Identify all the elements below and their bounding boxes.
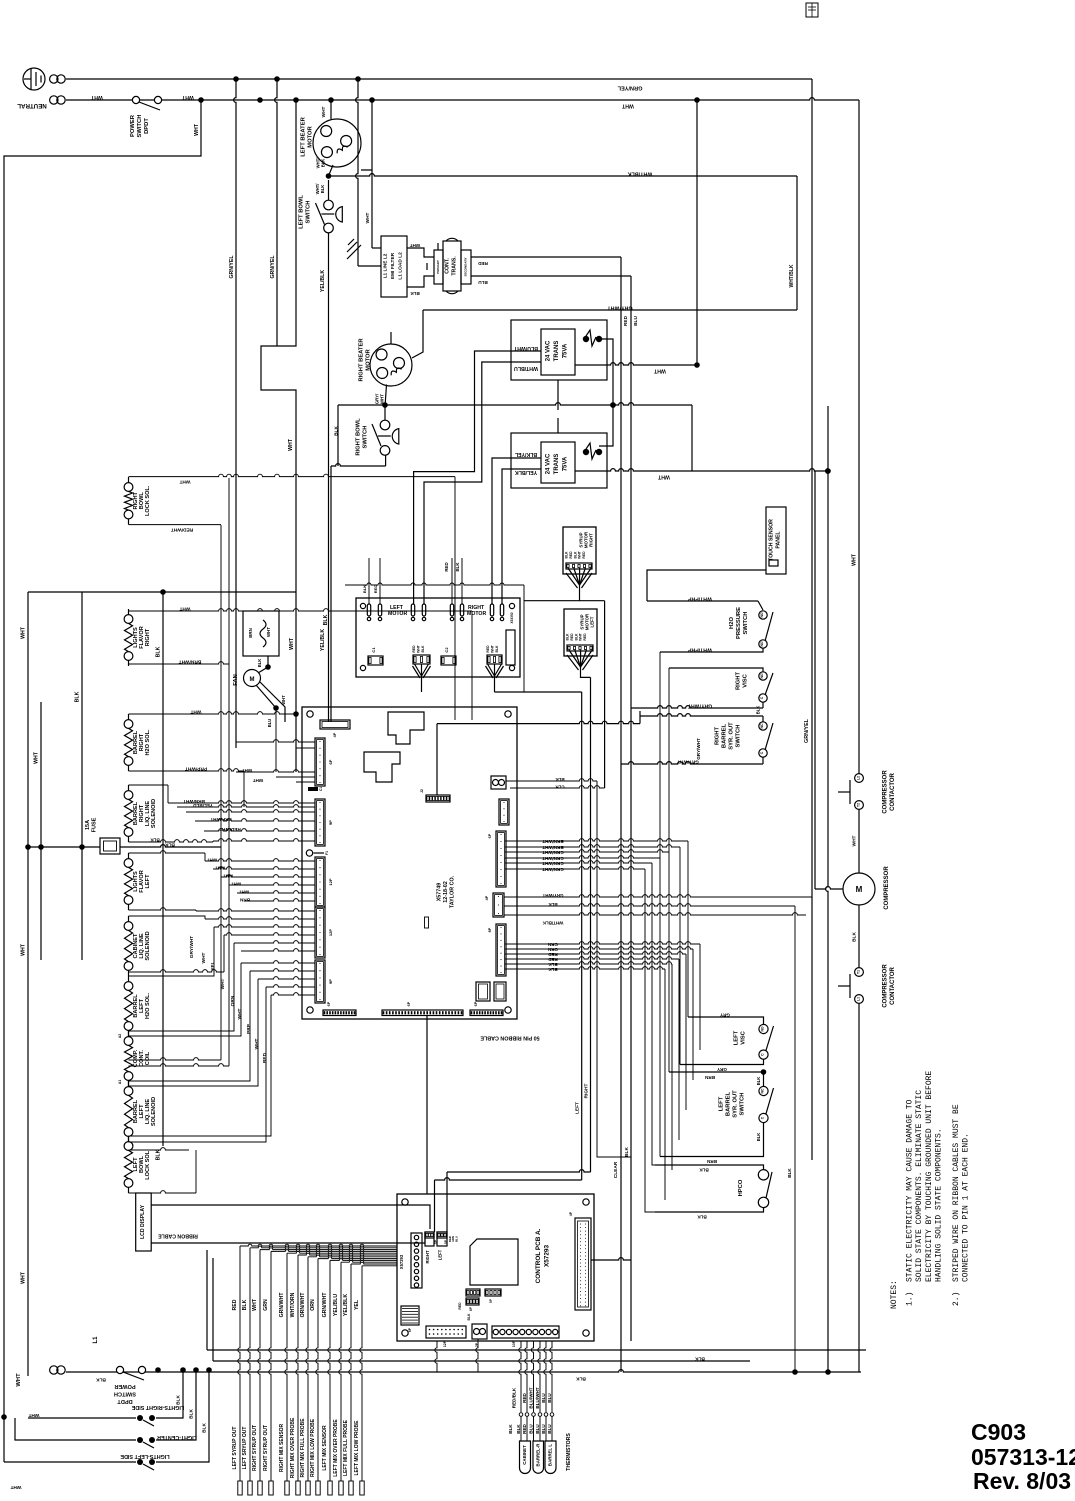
svg-text:M: M xyxy=(250,677,255,683)
svg-text:WHT: WHT xyxy=(21,626,27,639)
svg-text:H2O SOL.: H2O SOL. xyxy=(145,993,151,1020)
svg-text:T2: T2 xyxy=(857,803,861,807)
svg-text:STATIC ELECTRICITY MAY CAUSE D: STATIC ELECTRICITY MAY CAUSE DAMAGE TO xyxy=(906,1099,915,1282)
svg-text:LEFT MIX SENSOR: LEFT MIX SENSOR xyxy=(322,1425,328,1471)
svg-text:BRN: BRN xyxy=(704,1075,715,1080)
svg-text:LEFT BOWL: LEFT BOWL xyxy=(299,195,305,229)
svg-text:WHT/PRP: WHT/PRP xyxy=(688,647,712,653)
svg-text:BLK: BLK xyxy=(516,1424,521,1434)
svg-text:BLK: BLK xyxy=(574,633,578,641)
svg-text:LEFT: LEFT xyxy=(145,874,151,889)
svg-text:BRN: BRN xyxy=(239,898,250,903)
svg-text:SWITCH: SWITCH xyxy=(736,725,742,748)
svg-text:WHT: WHT xyxy=(579,632,583,641)
svg-text:WHT: WHT xyxy=(365,212,371,223)
svg-text:DPDT: DPDT xyxy=(144,118,150,134)
svg-text:X57749: X57749 xyxy=(436,883,442,902)
svg-text:C1: C1 xyxy=(371,647,376,653)
svg-text:BRN/WHT: BRN/WHT xyxy=(179,659,202,665)
svg-text:CLEAR: CLEAR xyxy=(613,1161,619,1178)
svg-text:TRANS: TRANS xyxy=(554,341,560,362)
svg-text:WHT: WHT xyxy=(21,943,27,956)
svg-text:RIGHT: RIGHT xyxy=(145,628,151,646)
svg-text:RIGHT SYRUP OUT: RIGHT SYRUP OUT xyxy=(252,1425,258,1471)
svg-text:WHT/BLK: WHT/BLK xyxy=(542,921,563,926)
svg-text:YEL/BLK: YEL/BLK xyxy=(515,469,537,475)
svg-text:RIGHT: RIGHT xyxy=(589,533,594,547)
svg-text:12P: 12P xyxy=(328,929,333,936)
svg-text:YEL/BLU: YEL/BLU xyxy=(192,803,212,808)
svg-text:F1: F1 xyxy=(325,851,329,855)
svg-text:BLK: BLK xyxy=(624,1147,630,1157)
svg-text:HANDLING SOLID STATE COMPONENT: HANDLING SOLID STATE COMPONENTS. xyxy=(935,1128,944,1282)
svg-text:YEL/BLK: YEL/BLK xyxy=(320,629,326,651)
svg-text:LEFT MIX FULL PROBE: LEFT MIX FULL PROBE xyxy=(343,1419,349,1476)
svg-text:GRN/YEL: GRN/YEL xyxy=(229,255,235,279)
svg-text:BLK: BLK xyxy=(150,838,160,843)
svg-text:BLU/WHT: BLU/WHT xyxy=(535,1387,540,1408)
svg-text:X53350: X53350 xyxy=(510,612,514,623)
svg-text:BLK/YEL: BLK/YEL xyxy=(514,451,537,457)
svg-text:CLR: CLR xyxy=(555,785,565,790)
svg-text:BRN: BRN xyxy=(706,1159,717,1164)
svg-text:RED/WHT: RED/WHT xyxy=(171,527,193,533)
svg-text:BLK: BLK xyxy=(756,706,761,715)
svg-text:BLU: BLU xyxy=(547,1393,552,1403)
svg-text:BLK: BLK xyxy=(242,1299,248,1310)
svg-text:12P: 12P xyxy=(443,1340,447,1347)
svg-text:RIGHT: RIGHT xyxy=(715,727,721,745)
svg-text:GRY/WHT: GRY/WHT xyxy=(607,305,633,311)
svg-text:PRP: PRP xyxy=(246,1023,252,1034)
svg-text:SYR. OUT: SYR. OUT xyxy=(729,722,735,750)
svg-text:RED: RED xyxy=(444,562,449,571)
svg-text:BLU: BLU xyxy=(454,1236,458,1242)
svg-text:THERMISTORS: THERMISTORS xyxy=(566,1433,572,1471)
svg-text:BLU: BLU xyxy=(547,1424,552,1434)
svg-text:WHT: WHT xyxy=(491,644,495,653)
svg-text:NO: NO xyxy=(760,612,764,617)
svg-text:C903: C903 xyxy=(971,1419,1026,1445)
svg-text:12P: 12P xyxy=(328,878,333,885)
svg-text:GRN/WHT: GRN/WHT xyxy=(542,867,564,872)
svg-text:BLK: BLK xyxy=(548,967,558,972)
svg-text:SWITCH: SWITCH xyxy=(740,1093,746,1116)
svg-text:WHT/ORN: WHT/ORN xyxy=(290,1292,296,1317)
svg-text:X57293: X57293 xyxy=(543,1245,550,1267)
svg-text:BLK: BLK xyxy=(565,551,569,559)
svg-text:BLK: BLK xyxy=(362,585,367,593)
svg-text:T1: T1 xyxy=(857,970,861,974)
svg-text:SOLENOID: SOLENOID xyxy=(145,931,151,960)
svg-text:RIGHT MIX LOW PROBE: RIGHT MIX LOW PROBE xyxy=(310,1418,316,1477)
svg-text:WHT: WHT xyxy=(380,394,385,404)
svg-text:ELECTRICITY BY TOUCHING GROUND: ELECTRICITY BY TOUCHING GROUNDED UNIT BE… xyxy=(925,1071,934,1282)
svg-text:GRN/YEL: GRN/YEL xyxy=(804,718,810,743)
svg-text:BLU: BLU xyxy=(478,280,488,285)
svg-text:WHT: WHT xyxy=(190,709,201,715)
svg-text:RED/BLK: RED/BLK xyxy=(512,1387,517,1408)
svg-text:BLK: BLK xyxy=(699,1168,709,1173)
svg-text:WHT: WHT xyxy=(252,1298,258,1311)
svg-text:BLK: BLK xyxy=(787,1168,792,1178)
svg-text:LEFT: LEFT xyxy=(575,1102,581,1114)
svg-text:BLK: BLK xyxy=(189,1409,195,1419)
svg-text:BLU: BLU xyxy=(267,719,272,728)
svg-text:SECONDARY: SECONDARY xyxy=(464,257,468,276)
svg-text:WHT: WHT xyxy=(239,890,250,895)
svg-text:VISC: VISC xyxy=(741,1030,747,1044)
svg-text:SWITCH: SWITCH xyxy=(306,201,312,224)
svg-text:TRANS: TRANS xyxy=(554,454,560,475)
svg-text:GRY/WHT: GRY/WHT xyxy=(677,760,699,765)
svg-text:POWER: POWER xyxy=(130,114,136,137)
svg-text:WHT: WHT xyxy=(852,553,858,566)
svg-text:BLK: BLK xyxy=(410,291,420,296)
svg-text:BLK: BLK xyxy=(467,1313,471,1321)
svg-text:CONTACTOR: CONTACTOR xyxy=(890,966,896,1004)
svg-text:BLK: BLK xyxy=(323,614,329,625)
svg-text:BLK: BLK xyxy=(756,1077,761,1086)
svg-text:GRY/WHT: GRY/WHT xyxy=(696,738,701,760)
svg-text:2.): 2.) xyxy=(952,1292,961,1306)
svg-text:LOCK SOL.: LOCK SOL. xyxy=(145,485,151,516)
svg-text:NO: NO xyxy=(761,1026,765,1031)
svg-text:CABINET: CABINET xyxy=(522,1445,527,1465)
svg-text:RIGHT: RIGHT xyxy=(584,1083,590,1098)
svg-text:LEFT BEATER: LEFT BEATER xyxy=(301,116,307,156)
svg-text:GRY/WHT: GRY/WHT xyxy=(542,893,563,898)
svg-text:BARREL L: BARREL L xyxy=(548,1444,553,1466)
svg-text:WHT: WHT xyxy=(21,1271,27,1284)
svg-text:BLK: BLK xyxy=(421,645,425,653)
svg-text:BLK: BLK xyxy=(573,551,577,559)
svg-text:GRN: GRN xyxy=(548,942,558,947)
svg-text:WHT: WHT xyxy=(852,835,858,846)
svg-text:YEL: YEL xyxy=(354,1299,360,1310)
svg-text:TOUCH SENSOR: TOUCH SENSOR xyxy=(769,519,775,561)
svg-text:ORN: ORN xyxy=(548,947,558,952)
svg-text:GRY/WHT: GRY/WHT xyxy=(189,936,195,959)
svg-text:6P: 6P xyxy=(474,1001,478,1006)
svg-text:L1: L1 xyxy=(93,1336,99,1344)
svg-text:BRN/WHT: BRN/WHT xyxy=(542,845,563,850)
svg-text:BLK: BLK xyxy=(548,902,558,907)
svg-text:RIGHT BOWL: RIGHT BOWL xyxy=(356,418,362,456)
svg-text:BLK: BLK xyxy=(156,646,162,657)
svg-text:LEFT: LEFT xyxy=(590,616,595,627)
svg-text:WHT: WHT xyxy=(321,106,327,117)
svg-text:RIGHT SYRUP OUT: RIGHT SYRUP OUT xyxy=(263,1425,269,1471)
svg-text:RED: RED xyxy=(570,633,574,641)
svg-text:NO: NO xyxy=(760,673,764,678)
svg-text:BLK: BLK xyxy=(566,633,570,641)
svg-text:M: M xyxy=(856,885,863,894)
svg-text:COMPRESSOR: COMPRESSOR xyxy=(884,866,890,910)
svg-text:LEFT SYRUP OUT: LEFT SYRUP OUT xyxy=(232,1427,238,1470)
svg-text:WHT: WHT xyxy=(220,978,226,989)
svg-text:COMPRESSOR: COMPRESSOR xyxy=(882,964,888,1008)
svg-text:BLU/WHT: BLU/WHT xyxy=(513,345,538,351)
svg-text:BLU: BLU xyxy=(541,1393,546,1403)
svg-text:WHT: WHT xyxy=(179,479,190,485)
svg-text:WHT: WHT xyxy=(657,474,670,480)
svg-text:75VA: 75VA xyxy=(563,343,569,358)
svg-text:WHT: WHT xyxy=(215,866,226,871)
svg-text:BLK: BLK xyxy=(756,1133,761,1142)
svg-text:10P: 10P xyxy=(512,1340,516,1347)
svg-text:RED: RED xyxy=(477,261,487,266)
svg-text:YEL/BLK: YEL/BLK xyxy=(320,270,326,292)
svg-text:LEFT: LEFT xyxy=(734,1030,740,1045)
svg-text:CONTROL PCB A.: CONTROL PCB A. xyxy=(535,1228,542,1283)
svg-text:BLU: BLU xyxy=(529,1424,534,1434)
svg-text:RED/WHT: RED/WHT xyxy=(219,827,241,832)
svg-text:RED: RED xyxy=(583,633,587,641)
svg-text:GRN/WHT: GRN/WHT xyxy=(542,861,564,866)
svg-text:L2: L2 xyxy=(857,776,861,780)
svg-text:BLK: BLK xyxy=(202,1423,208,1433)
svg-text:RIGHT BEATER: RIGHT BEATER xyxy=(359,338,365,382)
svg-text:LEFT MIX OVER PROBE: LEFT MIX OVER PROBE xyxy=(333,1419,339,1477)
svg-text:WHT: WHT xyxy=(410,243,421,248)
svg-text:LEFT: LEFT xyxy=(719,1096,725,1111)
svg-text:PRP/WHT: PRP/WHT xyxy=(210,817,231,822)
svg-text:BLU: BLU xyxy=(633,316,639,326)
svg-text:4P: 4P xyxy=(569,1211,573,1216)
svg-text:ORN: ORN xyxy=(230,995,236,1006)
svg-text:BLK: BLK xyxy=(75,691,81,702)
svg-text:RED: RED xyxy=(522,1392,527,1402)
svg-text:GRN/YEL: GRN/YEL xyxy=(617,85,642,91)
svg-text:C1: C1 xyxy=(319,787,323,791)
svg-text:SYR. OUT: SYR. OUT xyxy=(733,1090,739,1118)
svg-text:8P: 8P xyxy=(488,927,492,932)
svg-text:6P: 6P xyxy=(488,833,492,838)
svg-text:BLU/WHT: BLU/WHT xyxy=(529,1387,534,1408)
svg-text:50 PIN RIBBON CABLE: 50 PIN RIBBON CABLE xyxy=(480,1035,540,1041)
svg-text:WHT: WHT xyxy=(242,768,253,773)
svg-text:BLK: BLK xyxy=(548,962,558,967)
svg-text:WHT: WHT xyxy=(254,1038,260,1049)
svg-text:6P: 6P xyxy=(328,759,333,764)
svg-text:LEFT MIX LOW PROBE: LEFT MIX LOW PROBE xyxy=(354,1420,360,1476)
svg-text:BLU: BLU xyxy=(541,1424,546,1434)
svg-text:POWER: POWER xyxy=(114,1383,135,1389)
svg-text:BLK: BLK xyxy=(334,426,340,436)
svg-text:WHT: WHT xyxy=(231,882,242,887)
svg-text:WHT: WHT xyxy=(28,1412,39,1418)
svg-text:WHT: WHT xyxy=(181,94,194,100)
svg-text:FUSE: FUSE xyxy=(91,817,97,832)
svg-text:L1: L1 xyxy=(857,997,861,1001)
svg-text:WHT: WHT xyxy=(266,627,271,637)
svg-text:PANEL: PANEL xyxy=(776,531,782,549)
svg-text:WHT: WHT xyxy=(179,606,190,612)
svg-text:12-18-02: 12-18-02 xyxy=(443,881,449,903)
svg-text:RIGHT: RIGHT xyxy=(425,1250,430,1263)
svg-text:1.): 1.) xyxy=(906,1292,915,1306)
svg-text:SWITCH: SWITCH xyxy=(137,115,143,138)
svg-text:GRY/WHT: GRY/WHT xyxy=(687,703,712,709)
svg-text:BRN: BRN xyxy=(248,628,253,638)
svg-text:WHT: WHT xyxy=(253,778,264,783)
svg-text:RED: RED xyxy=(262,1052,268,1063)
svg-text:GRN/WHT: GRN/WHT xyxy=(279,1292,285,1318)
svg-text:H2O: H2O xyxy=(729,617,735,629)
svg-text:75VA: 75VA xyxy=(563,456,569,471)
svg-text:VISC: VISC xyxy=(743,673,749,687)
svg-text:RIGHT MIX SENSOR: RIGHT MIX SENSOR xyxy=(279,1423,285,1472)
svg-text:PRESSURE: PRESSURE xyxy=(736,607,742,639)
svg-text:WHT: WHT xyxy=(207,858,218,863)
svg-text:WHT/BLK: WHT/BLK xyxy=(627,171,652,177)
svg-text:COIL: COIL xyxy=(145,1051,151,1065)
svg-text:LEFT: LEFT xyxy=(438,1249,443,1260)
svg-text:BLK: BLK xyxy=(697,1215,707,1220)
svg-text:LEFT SRYUP OUT: LEFT SRYUP OUT xyxy=(242,1427,248,1470)
svg-text:PRIMARY: PRIMARY xyxy=(436,260,440,274)
svg-text:6P: 6P xyxy=(407,1001,411,1006)
svg-text:BLK: BLK xyxy=(555,777,565,782)
svg-text:RIGHT MIX FULL PROBE: RIGHT MIX FULL PROBE xyxy=(300,1418,306,1478)
svg-text:WHT: WHT xyxy=(201,952,207,963)
svg-text:NC: NC xyxy=(761,1088,765,1093)
svg-text:4P: 4P xyxy=(333,732,337,737)
svg-text:24 VAC: 24 VAC xyxy=(546,340,552,361)
svg-text:YEL/BLU: YEL/BLU xyxy=(333,1294,339,1316)
svg-text:TRANS.: TRANS. xyxy=(452,256,458,276)
svg-text:BLK: BLK xyxy=(852,932,858,942)
svg-text:GRN: GRN xyxy=(263,1299,269,1311)
svg-text:A2: A2 xyxy=(118,1034,122,1039)
svg-text:ORN/WHT: ORN/WHT xyxy=(300,1292,306,1318)
svg-text:L1 LOAD L2: L1 LOAD L2 xyxy=(398,252,404,280)
svg-text:J2: J2 xyxy=(420,789,424,793)
svg-text:WHT/PRP: WHT/PRP xyxy=(688,596,712,602)
svg-text:YEL/BLK: YEL/BLK xyxy=(343,1294,349,1316)
svg-text:LIGHTS-LEFT SIDE: LIGHTS-LEFT SIDE xyxy=(120,1453,170,1459)
svg-text:GRN/WHT: GRN/WHT xyxy=(542,856,564,861)
svg-text:GRY: GRY xyxy=(720,1013,730,1018)
svg-text:WHT/BLK: WHT/BLK xyxy=(789,264,795,287)
svg-text:WHT: WHT xyxy=(10,1484,21,1490)
svg-text:SWITCH: SWITCH xyxy=(114,1391,136,1397)
svg-text:BARREL-R: BARREL-R xyxy=(535,1443,540,1467)
svg-text:CONNECTED TO PIN 1 AT EACH END: CONNECTED TO PIN 1 AT EACH END. xyxy=(961,1133,970,1282)
svg-text:RED: RED xyxy=(522,1423,527,1433)
svg-text:H2O SOL.: H2O SOL. xyxy=(145,729,151,756)
svg-text:9P: 9P xyxy=(328,979,333,984)
svg-text:WHT: WHT xyxy=(16,1373,22,1387)
svg-text:RED: RED xyxy=(623,315,629,326)
svg-text:EMI FILTER: EMI FILTER xyxy=(390,252,396,279)
svg-text:BLK: BLK xyxy=(495,645,499,653)
svg-text:BARREL: BARREL xyxy=(726,1091,732,1116)
svg-text:BLK: BLK xyxy=(321,159,326,168)
svg-text:RED: RED xyxy=(412,645,416,653)
svg-text:BLK: BLK xyxy=(257,659,262,668)
svg-text:WHT: WHT xyxy=(194,123,200,136)
svg-text:9P: 9P xyxy=(328,820,333,825)
svg-text:24 VAC: 24 VAC xyxy=(546,453,552,474)
svg-text:SOLENOID: SOLENOID xyxy=(151,799,157,828)
svg-text:WHT: WHT xyxy=(34,751,40,764)
svg-text:FAN: FAN xyxy=(233,674,239,686)
svg-text:RIGHT: RIGHT xyxy=(736,672,742,690)
svg-text:WHT/BLU: WHT/BLU xyxy=(514,365,538,371)
svg-text:BARREL: BARREL xyxy=(722,723,728,748)
svg-text:GRN/WHT: GRN/WHT xyxy=(322,1292,328,1318)
svg-text:RIGHT MIX OVER PROBE: RIGHT MIX OVER PROBE xyxy=(290,1417,296,1478)
svg-text:HPCO: HPCO xyxy=(738,1179,744,1196)
svg-text:STRIPED WIRE ON RIBBON CABLES: STRIPED WIRE ON RIBBON CABLES MUST BE xyxy=(952,1104,961,1282)
svg-text:LOCK SOL.: LOCK SOL. xyxy=(145,1149,151,1180)
svg-text:SOLENOID: SOLENOID xyxy=(151,1097,157,1126)
svg-text:LCD DISPLAY: LCD DISPLAY xyxy=(140,1204,146,1239)
svg-text:BLK: BLK xyxy=(695,1356,705,1362)
svg-text:MOTOR: MOTOR xyxy=(308,125,314,147)
svg-text:PRP/WHT: PRP/WHT xyxy=(185,766,207,772)
svg-text:COMPRESSOR: COMPRESSOR xyxy=(882,770,888,814)
svg-text:RED: RED xyxy=(486,645,490,653)
svg-text:6P: 6P xyxy=(408,1327,412,1332)
svg-text:MOTOR: MOTOR xyxy=(366,348,372,370)
svg-text:BLU: BLU xyxy=(535,1424,540,1434)
svg-text:X57293: X57293 xyxy=(399,1254,404,1269)
svg-text:Rev. 8/03: Rev. 8/03 xyxy=(973,1468,1071,1494)
svg-text:CONTACTOR: CONTACTOR xyxy=(890,772,896,810)
svg-text:WHT: WHT xyxy=(417,644,421,653)
svg-text:4P: 4P xyxy=(485,895,489,900)
svg-text:C2: C2 xyxy=(444,647,449,653)
svg-text:NOTES:: NOTES: xyxy=(890,1280,899,1309)
svg-text:BRN/WHT: BRN/WHT xyxy=(542,839,563,844)
svg-text:RED: RED xyxy=(548,957,558,962)
svg-text:6P: 6P xyxy=(327,1001,331,1006)
svg-text:WHT: WHT xyxy=(289,637,295,650)
svg-text:L1 LINE L2: L1 LINE L2 xyxy=(383,253,389,278)
svg-text:BLK: BLK xyxy=(576,1376,586,1382)
svg-text:RED: RED xyxy=(458,1302,462,1310)
svg-text:BLK: BLK xyxy=(320,185,325,194)
svg-text:WHT: WHT xyxy=(621,103,634,109)
svg-text:RED: RED xyxy=(232,1299,238,1310)
svg-text:DPDT: DPDT xyxy=(117,1398,133,1404)
svg-text:MOTOR: MOTOR xyxy=(388,611,407,617)
svg-text:MOTOR: MOTOR xyxy=(467,611,486,617)
svg-text:SOLID STATE COMPONENTS. ELIMI: SOLID STATE COMPONENTS. ELIMINATE STATIC xyxy=(915,1090,924,1282)
svg-text:RED: RED xyxy=(569,551,573,559)
svg-text:WHT: WHT xyxy=(578,550,582,559)
svg-text:BLK: BLK xyxy=(508,1424,513,1434)
svg-text:ORN: ORN xyxy=(310,1299,316,1311)
svg-text:TAYLOR CO.: TAYLOR CO. xyxy=(450,875,456,908)
svg-text:RIBBON CABLE: RIBBON CABLE xyxy=(158,1233,198,1239)
svg-text:BLK: BLK xyxy=(156,1149,162,1160)
svg-text:RED: RED xyxy=(373,585,378,594)
svg-text:NC: NC xyxy=(760,723,764,728)
svg-text:CONT.: CONT. xyxy=(445,258,451,274)
svg-text:A1: A1 xyxy=(118,1080,122,1085)
svg-text:GRY: GRY xyxy=(717,1067,727,1072)
svg-text:SWITCH: SWITCH xyxy=(363,426,369,449)
svg-text:15A: 15A xyxy=(85,820,91,830)
svg-text:NO: NO xyxy=(760,641,764,646)
svg-text:BLK: BLK xyxy=(455,562,460,572)
svg-text:WHT: WHT xyxy=(653,368,666,374)
svg-text:RED: RED xyxy=(548,952,558,957)
